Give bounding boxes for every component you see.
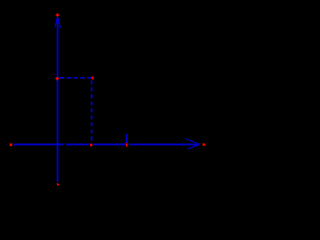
- point on x-axis below dashed line: [90, 144, 92, 147]
- x-axis arrowhead: [185, 138, 200, 149]
- point on x-axis at tick: [126, 143, 128, 146]
- x-axis segment left: [13, 143, 64, 145]
- x-axis segment 3: [93, 143, 125, 145]
- point left end of x-axis (square marker): [10, 143, 13, 146]
- x-axis segment 2: [66, 143, 89, 145]
- y-axis arrowhead: [55, 17, 60, 28]
- tick at x=1: [126, 134, 128, 143]
- point on y-axis (plus marker): [55, 77, 59, 80]
- dashed horizontal line: [60, 77, 91, 79]
- dashed vertical line: [91, 80, 93, 143]
- point at top of y-axis (plus marker): [56, 13, 59, 16]
- point at bottom of y-axis: [57, 183, 59, 185]
- y-axis: [57, 18, 59, 182]
- point right end of x-axis (square marker): [203, 143, 205, 145]
- point at corner of dashed lines: [92, 76, 94, 79]
- x-axis segment right: [129, 143, 199, 145]
